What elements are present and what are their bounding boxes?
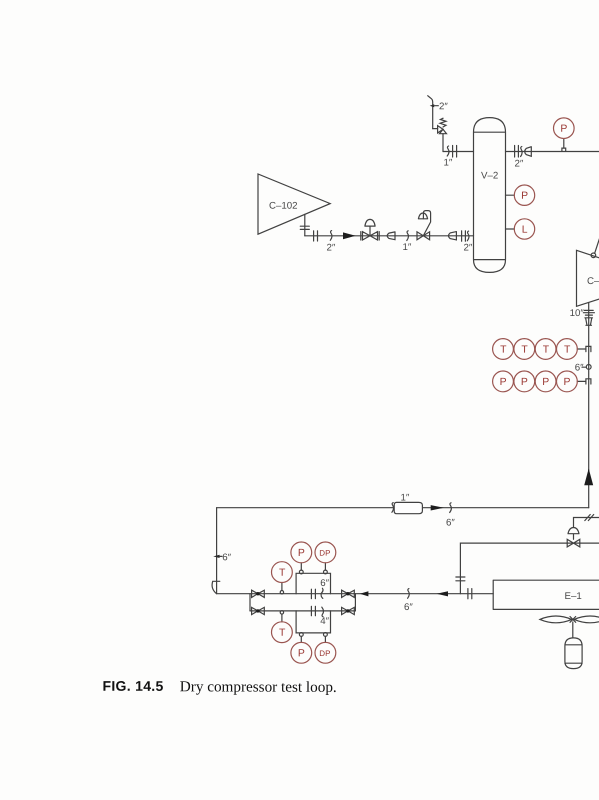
svg-text:2″: 2″ [463, 243, 472, 254]
tap circle on riser [586, 365, 591, 370]
reducer 2in to V-2 [448, 232, 456, 240]
tap circle DP lower [324, 633, 328, 637]
wire V-2 top-left inlet 1in [443, 151, 474, 153]
svg-text:T: T [279, 568, 286, 579]
vessel V-2 [474, 118, 506, 273]
flow arrow right [431, 505, 444, 510]
wire vent jog to PSV [433, 128, 438, 130]
relief valve spring [440, 118, 446, 127]
instrument P on V-2 [514, 185, 534, 205]
wire upper T stem [281, 583, 283, 591]
svg-text:P: P [560, 124, 567, 135]
instrument P top [554, 118, 575, 139]
svg-text:P: P [500, 377, 507, 388]
wire V-2 L tap stub [506, 228, 515, 230]
compressor C-102 [258, 174, 330, 234]
reducer V-2 outlet [525, 147, 532, 157]
svg-text:DP: DP [319, 649, 330, 658]
valve lower-right [342, 607, 355, 614]
svg-text:C–10: C–10 [587, 276, 599, 287]
orifice flanges lower 4in [311, 606, 315, 615]
instrument T4 [557, 339, 578, 360]
fan hub cross [570, 617, 576, 623]
cooler E-1 shell [493, 580, 599, 609]
size tick 6in meter header [408, 589, 410, 599]
flange pair V-2 left inlet [453, 146, 457, 158]
wire E-1 inlet from offpage [460, 543, 599, 594]
svg-text:P: P [542, 377, 549, 388]
instrument P1 [493, 371, 514, 392]
wire V-2 P tap stub [506, 194, 515, 196]
valve upper-right [342, 590, 355, 597]
flange pair at E-1 nozzle [468, 589, 472, 599]
size tick 2in [467, 231, 469, 241]
svg-text:2″: 2″ [439, 101, 448, 112]
flange set 10in [583, 310, 594, 315]
size tick 1in [407, 231, 409, 241]
svg-text:T: T [543, 345, 550, 356]
svg-text:P: P [563, 377, 570, 388]
svg-text:2″: 2″ [514, 159, 523, 170]
flange pair on drop [456, 577, 465, 581]
size tick at muffler [392, 503, 394, 513]
svg-text:10″: 10″ [570, 308, 585, 319]
svg-text:P: P [521, 191, 528, 202]
branch right to lower run [354, 594, 356, 611]
wire DP stem lower [324, 636, 326, 642]
svg-text:V–2: V–2 [481, 171, 498, 182]
wire P gauge stem [563, 139, 565, 148]
leader arrow 2in vent [430, 104, 439, 107]
svg-text:T: T [564, 345, 571, 356]
wire P row leader [577, 380, 586, 382]
size tick 2in [330, 231, 332, 241]
relief valve PSV outlet triangle [438, 126, 443, 133]
wire PSV inlet [442, 134, 444, 152]
instrument P upper run [291, 542, 312, 563]
svg-text:6″: 6″ [320, 578, 329, 589]
control valve CV1 body [417, 232, 430, 240]
globe valve body [361, 232, 379, 240]
wire C-102 outlet stub [304, 214, 306, 236]
fan blade left [540, 616, 572, 623]
instrument T1 [493, 339, 514, 360]
leader arrow 6in downcomer [213, 555, 222, 558]
svg-text:FIG. 14.5: FIG. 14.5 [102, 678, 163, 694]
instrument DP lower run [315, 642, 336, 663]
flange pair at V-2 inlet [462, 231, 466, 241]
svg-text:6″: 6″ [404, 602, 413, 613]
wire DP stem upper [324, 563, 326, 570]
svg-text:6″: 6″ [446, 518, 455, 529]
wire C-102 discharge to V-2 [305, 235, 474, 237]
wire V-2 top-right outlet 2in [506, 151, 599, 153]
control valve CV1 actuator stem and flag [423, 211, 430, 236]
wire CV2 signal [574, 518, 599, 528]
leader dash 6in [582, 366, 586, 368]
wire fan shaft [572, 622, 574, 638]
globe valve handwheel dome [365, 219, 375, 235]
svg-text:6″: 6″ [575, 363, 584, 374]
control valve CV2 body [567, 539, 580, 547]
tap circle on C-101 casing [591, 253, 596, 258]
compressor C-101 [577, 250, 599, 306]
tap square T row [586, 346, 591, 351]
wire P stem upper [300, 563, 302, 570]
size tick outlet [521, 147, 523, 157]
wire tap to offpage instrument [595, 236, 599, 254]
wire P stem lower [300, 636, 302, 642]
svg-text:6″: 6″ [222, 552, 231, 563]
svg-text:DP: DP [319, 549, 330, 558]
svg-text:L: L [522, 225, 528, 236]
svg-text:4″: 4″ [320, 616, 329, 627]
control valve CV1 diaphragm dome [418, 213, 427, 219]
instrument T2 [514, 339, 535, 360]
svg-text:C–102: C–102 [269, 201, 298, 212]
svg-text:E–1: E–1 [564, 591, 581, 602]
instrument T lower run [272, 622, 293, 643]
wire left downcomer [216, 508, 218, 594]
size tick 6in header [450, 503, 452, 513]
instrument L on V-2 [514, 219, 534, 239]
svg-text:T: T [521, 345, 528, 356]
svg-text:P: P [298, 648, 305, 659]
svg-text:Dry compressor test loop.: Dry compressor test loop. [180, 678, 337, 696]
instrument T upper run [272, 562, 293, 583]
control valve CV2 diaphragm [568, 528, 579, 540]
tap circle upper T [280, 591, 283, 594]
instrument P3 [535, 371, 556, 392]
instrument P2 [514, 371, 535, 392]
fan blade right [574, 616, 599, 623]
instrument P4 [557, 371, 578, 392]
svg-text:1″: 1″ [402, 242, 411, 253]
reducer 1in [387, 232, 395, 240]
check valve arrow [343, 232, 356, 239]
flange pair outlet [515, 146, 519, 158]
manifold box upper [296, 573, 330, 593]
wire vent riser to atmosphere [428, 96, 433, 129]
flange pair 2in [314, 231, 318, 241]
wire T row leader [577, 348, 586, 350]
size tick upper orifice [321, 588, 323, 598]
size tick 1in [447, 146, 449, 156]
svg-text:T: T [279, 628, 286, 639]
orifice flanges upper 6in [311, 589, 315, 598]
branch left to lower run [249, 594, 251, 611]
wire meter run header [217, 593, 494, 595]
tap square of P gauge [562, 148, 566, 151]
relief valve PSV inlet triangle [440, 129, 447, 133]
manifold box lower [296, 611, 330, 633]
instrument P lower run [291, 642, 312, 663]
svg-text:P: P [298, 548, 305, 559]
fan motor drum [565, 638, 582, 669]
valve upper-left [252, 590, 265, 597]
tap circle lower T [280, 611, 283, 614]
wire recycle header top [217, 507, 589, 509]
svg-text:T: T [500, 345, 507, 356]
wire C-101 suction riser 6in [588, 303, 590, 508]
svg-text:2″: 2″ [326, 243, 335, 254]
signal slashes [585, 515, 594, 521]
wire lower T stem [281, 614, 283, 622]
flow arrow left on header [360, 591, 369, 596]
flow arrow left at E-1 outlet [437, 591, 449, 596]
size tick lower orifice [322, 607, 324, 617]
svg-text:1″: 1″ [443, 158, 452, 169]
inline silencer 1in [394, 502, 422, 513]
drain funnel at downcomer base [212, 581, 220, 593]
instrument DP upper run [315, 542, 336, 563]
valve lower-left [252, 607, 265, 614]
tap circle P lower [299, 633, 303, 637]
reducer 10x6 [585, 318, 593, 326]
tap square P row [586, 379, 591, 384]
svg-text:P: P [521, 377, 528, 388]
flow arrow up on riser [585, 470, 592, 485]
tap circle DP upper [324, 570, 328, 574]
instrument T3 [535, 339, 556, 360]
tap circle P upper [299, 570, 303, 574]
svg-text:1″: 1″ [400, 493, 409, 504]
wire lower meter run [250, 610, 355, 612]
flange pair on stub [300, 226, 309, 229]
